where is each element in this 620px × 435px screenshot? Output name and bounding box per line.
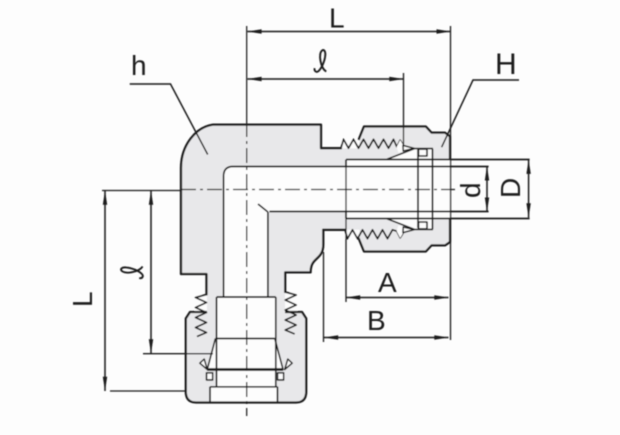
l left xyxy=(150,191,152,354)
A ext xyxy=(345,160,347,302)
H leader xyxy=(442,80,519,147)
svg-text:D: D xyxy=(495,178,526,198)
bore lines vertical arm xyxy=(223,176,225,297)
nut end recess white (vertical) xyxy=(210,387,278,403)
bold ferrule seat line (vertical) xyxy=(207,368,283,371)
B ext xyxy=(323,252,325,342)
outer elbow curve and top edge xyxy=(181,125,341,274)
ferrule pocket white (horizontal) xyxy=(387,149,433,230)
d dim xyxy=(486,166,488,211)
body left step to vertical threads xyxy=(181,274,207,295)
centerline horizontal xyxy=(102,190,181,192)
bottom flat before threads xyxy=(323,229,345,231)
B dim xyxy=(324,337,449,339)
L left xyxy=(104,191,106,392)
thread gap white top xyxy=(341,139,360,148)
dimension lines xyxy=(103,26,531,391)
counterbore white (horizontal) xyxy=(346,160,450,219)
extension right x=450 xyxy=(450,26,452,340)
ferrule details vertical xyxy=(200,339,292,380)
svg-text:d: d xyxy=(455,182,486,198)
threads left (vertical arm) xyxy=(196,295,207,337)
thread gap white vert-right xyxy=(285,292,297,314)
nut N2 outline (vertical) xyxy=(186,312,306,403)
bore corner fillet xyxy=(224,167,233,177)
svg-text:B: B xyxy=(367,305,386,336)
threads right (vertical arm) xyxy=(285,292,296,334)
shoulder lines xyxy=(345,160,347,219)
svg-text:L: L xyxy=(329,3,345,34)
bore lines horizontal arm xyxy=(210,149,530,403)
threads top (horizontal arm) xyxy=(341,139,403,148)
nut internal shoulders xyxy=(432,149,434,229)
counterbore white (vertical) xyxy=(217,297,276,387)
h leader xyxy=(130,84,208,155)
svg-text:h: h xyxy=(131,50,147,81)
body right junction xyxy=(285,230,323,292)
L left ext bottom xyxy=(110,390,185,392)
script l left (rotated) xyxy=(121,267,143,279)
ferrule pocket white (vertical) xyxy=(207,339,283,371)
nut N2 gray fill (vertical) xyxy=(186,312,306,403)
nut N1 outline (horizontal) xyxy=(359,127,451,252)
threads bottom (horizontal arm) xyxy=(345,230,403,239)
l left ext xyxy=(143,353,213,355)
bore channel white xyxy=(224,167,450,298)
svg-text:A: A xyxy=(378,267,397,298)
script l top xyxy=(315,50,327,72)
ferrule details horizontal xyxy=(387,140,433,238)
A dim xyxy=(346,297,449,299)
elbow body gray fill xyxy=(181,125,420,336)
thread gap white vert-left xyxy=(195,295,207,314)
thread gap white bottom xyxy=(345,230,360,239)
L top xyxy=(247,31,450,33)
inner corner chamfer xyxy=(258,204,268,212)
svg-text:H: H xyxy=(495,48,517,81)
body outline xyxy=(181,125,345,295)
extension l x=403.5 xyxy=(403,73,405,145)
svg-text:L: L xyxy=(67,291,98,307)
centerline vertical xyxy=(246,26,248,122)
D dim xyxy=(528,160,530,218)
nut N1 gray fill (horizontal) xyxy=(359,127,451,252)
l top xyxy=(247,78,403,80)
